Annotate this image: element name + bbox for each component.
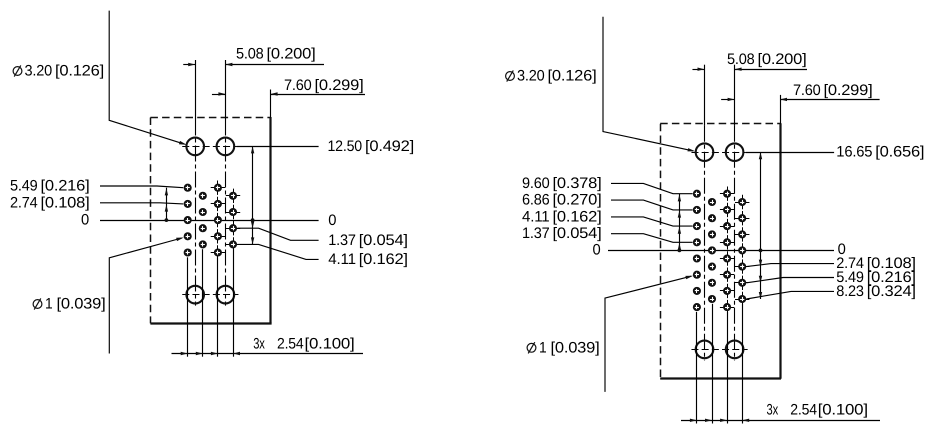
svg-text:2.54: 2.54 bbox=[790, 402, 817, 419]
svg-text:3.20: 3.20 bbox=[517, 68, 545, 85]
svg-text:0: 0 bbox=[328, 212, 336, 229]
svg-text:[0.162]: [0.162] bbox=[553, 208, 602, 225]
svg-text:3x: 3x bbox=[767, 402, 779, 419]
svg-text:[0.100]: [0.100] bbox=[305, 335, 355, 352]
svg-text:1: 1 bbox=[539, 339, 547, 356]
svg-text:[0.054]: [0.054] bbox=[359, 232, 408, 249]
svg-text:1.37: 1.37 bbox=[522, 225, 550, 242]
svg-text:4.11: 4.11 bbox=[522, 208, 550, 225]
svg-text:[0.108]: [0.108] bbox=[41, 194, 90, 211]
svg-text:1.37: 1.37 bbox=[328, 232, 356, 249]
svg-text:[0.039]: [0.039] bbox=[57, 296, 106, 313]
svg-text:8.23: 8.23 bbox=[836, 283, 864, 300]
svg-text:3x: 3x bbox=[253, 335, 265, 352]
svg-text:[0.299]: [0.299] bbox=[315, 77, 364, 94]
svg-text:7.60: 7.60 bbox=[793, 82, 821, 99]
svg-text:3.20: 3.20 bbox=[25, 63, 53, 80]
svg-text:2.54: 2.54 bbox=[277, 335, 304, 352]
svg-text:0: 0 bbox=[593, 242, 601, 259]
svg-text:2.74: 2.74 bbox=[10, 194, 38, 211]
svg-text:[0.216]: [0.216] bbox=[41, 178, 90, 195]
svg-text:[0.492]: [0.492] bbox=[365, 138, 414, 155]
svg-text:6.86: 6.86 bbox=[522, 192, 550, 209]
svg-text:4.11: 4.11 bbox=[328, 251, 356, 268]
svg-text:0: 0 bbox=[81, 211, 89, 228]
svg-text:[0.054]: [0.054] bbox=[553, 225, 602, 242]
svg-text:[0.126]: [0.126] bbox=[55, 63, 104, 80]
svg-text:[0.126]: [0.126] bbox=[548, 68, 597, 85]
svg-text:[0.324]: [0.324] bbox=[867, 283, 916, 300]
svg-text:9.60: 9.60 bbox=[522, 175, 550, 192]
svg-text:[0.299]: [0.299] bbox=[824, 82, 873, 99]
svg-text:5.08: 5.08 bbox=[727, 51, 755, 68]
svg-text:[0.039]: [0.039] bbox=[551, 339, 600, 356]
svg-text:5.08: 5.08 bbox=[236, 46, 264, 63]
svg-text:7.60: 7.60 bbox=[284, 77, 312, 94]
svg-text:[0.200]: [0.200] bbox=[267, 46, 316, 63]
svg-text:5.49: 5.49 bbox=[10, 178, 38, 195]
svg-text:1: 1 bbox=[45, 296, 53, 313]
svg-text:12.50: 12.50 bbox=[328, 138, 363, 155]
svg-text:[0.100]: [0.100] bbox=[818, 402, 868, 419]
svg-text:[0.200]: [0.200] bbox=[758, 51, 807, 68]
svg-text:[0.162]: [0.162] bbox=[359, 251, 408, 268]
svg-text:[0.656]: [0.656] bbox=[875, 144, 924, 161]
svg-text:[0.378]: [0.378] bbox=[553, 175, 602, 192]
svg-text:[0.270]: [0.270] bbox=[553, 192, 602, 209]
svg-text:16.65: 16.65 bbox=[836, 144, 872, 161]
